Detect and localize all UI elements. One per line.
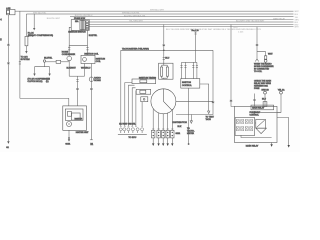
svg-text:CONDENSER: CONDENSER	[62, 54, 76, 56]
relay internal wire	[255, 122, 256, 124]
svg-text:IGNITION TIMING: IGNITION TIMING	[139, 78, 156, 80]
connector on ignition feed	[19, 62, 21, 64]
bus mid labels	[33, 10, 286, 34]
svg-text:IGNITION: IGNITION	[182, 82, 191, 84]
svg-text:FUSE: FUSE	[254, 88, 260, 90]
sensor box T inner	[140, 80, 147, 83]
relay horizontal with diamond	[255, 111, 281, 113]
branch feed wire to condenser node	[46, 61, 56, 63]
fuse box cluster outer	[71, 20, 89, 31]
wire bus drop x=257	[256, 27, 258, 59]
svg-text:C 423: C 423	[238, 32, 244, 34]
wire cluster left to condenser node	[69, 27, 71, 45]
wire coil drop	[87, 45, 89, 55]
stub wire x=34.2	[33, 14, 35, 28]
wire U right arm to coil	[84, 64, 86, 77]
wire bus line 5	[90, 21, 294, 23]
connector tick coil secondary	[90, 88, 92, 89]
connector tick stem	[76, 88, 78, 89]
branch feed wire right	[61, 61, 69, 63]
bus right end labels	[295, 11, 300, 28]
ground arrows distributor	[152, 143, 174, 146]
wire ignition feed vertical x=19.9	[19, 11, 21, 98]
igniter text box	[181, 79, 200, 89]
igniter inner element 1	[68, 111, 72, 116]
radio noise condenser circle	[89, 77, 93, 81]
ground wires below connector row	[153, 138, 172, 144]
svg-text:BLK/YEL WHT/BLK YEL: BLK/YEL WHT/BLK YEL	[124, 16, 147, 18]
ignition coil box	[81, 55, 95, 63]
wire bus drop to main relay	[231, 25, 235, 107]
relay pin grid box	[235, 118, 255, 136]
igniter inner element 2	[71, 113, 80, 120]
ecu connector circles	[119, 128, 143, 131]
connector tick on relay drop	[230, 100, 232, 102]
relay ground arrow	[270, 144, 272, 147]
svg-text:MAIN RELAY: MAIN RELAY	[273, 17, 286, 20]
wire long vertical right of circle	[176, 50, 213, 114]
svg-text:G101: G101	[176, 133, 181, 135]
wire tee condenser-coil	[69, 44, 87, 46]
wire ecu L3	[129, 85, 135, 126]
relay pins row2	[236, 127, 253, 131]
svg-text:MAIN RELAY: MAIN RELAY	[252, 107, 265, 110]
component on BRN wire	[263, 102, 267, 107]
wire to tach arrow stub	[190, 115, 192, 121]
wire ecu drop 1	[120, 50, 122, 126]
svg-text:TO COIL: TO COIL	[254, 71, 263, 73]
svg-text:COIL: COIL	[96, 61, 102, 63]
circle connector BRN	[264, 91, 267, 94]
hollow arrow end	[208, 111, 210, 114]
wire bus line 1 (WHT)	[15, 10, 294, 12]
svg-text:YEL/GRN WHT: YEL/GRN WHT	[129, 21, 144, 23]
relay title box	[251, 105, 274, 110]
svg-text:BLK/YEL WHT: BLK/YEL WHT	[47, 18, 61, 20]
svg-text:WHT: WHT	[268, 53, 273, 55]
wire U bottom	[69, 75, 84, 77]
wire main vertical to noise suppressor x=163.8	[163, 25, 165, 64]
relay switch element	[256, 119, 266, 128]
main relay outer box	[235, 106, 278, 142]
ground dot IG	[188, 143, 190, 145]
stub into relay with tick	[253, 94, 255, 107]
wire from IG box right corner	[200, 84, 209, 111]
wire No.1 IG drop	[195, 34, 197, 62]
sensor box S dot	[143, 98, 145, 100]
arrow to compressor	[33, 74, 35, 77]
svg-text:BLU: BLU	[295, 14, 299, 16]
wire ecu L2	[125, 83, 132, 127]
cluster pin squares	[86, 21, 89, 30]
wire bus line 6	[90, 24, 294, 26]
suppressor element 1	[161, 67, 163, 76]
relay switch diagonal	[257, 120, 265, 127]
svg-text:CONTROL: CONTROL	[250, 115, 259, 117]
wire IG box bottom ground	[188, 88, 190, 143]
svg-text:IGNITION SWITCH: IGNITION SWITCH	[68, 31, 86, 33]
relay ground wire	[271, 143, 273, 145]
sensor box B inner	[140, 90, 146, 93]
wire igniter feed stem	[77, 76, 79, 106]
svg-text:BLK: BLK	[178, 126, 182, 128]
branch to fuse	[257, 52, 266, 56]
junction tick battery wire	[7, 44, 9, 46]
wire cluster bottom to coil	[87, 30, 89, 45]
svg-text:BLU YEL/GRN GRN/ORN WHT/BLU: BLU YEL/GRN GRN/ORN WHT/BLU BLK/YEL WHT …	[166, 29, 262, 31]
wire tachometer branch corner	[121, 49, 213, 51]
connector No.1 IG	[194, 32, 196, 34]
svg-text:METER: METER	[187, 133, 195, 135]
svg-text:15A: 15A	[75, 20, 79, 23]
svg-text:TACH: TACH	[206, 118, 212, 121]
distributor bottom wire 4	[167, 113, 169, 131]
connector on 257 wire	[256, 44, 258, 45]
svg-text:WHT/BLU BLK/YEL: WHT/BLU BLK/YEL	[122, 13, 141, 15]
hollow arrow tach	[190, 121, 192, 124]
relay pins row2 x marks	[236, 127, 253, 131]
fuse drop wire x=26.4	[25, 14, 27, 36]
svg-text:WHT/BLU: WHT/BLU	[81, 67, 91, 69]
coil feed split bus	[182, 61, 197, 63]
fork connector end of 257	[255, 59, 258, 62]
connector pair right	[86, 48, 88, 50]
arrow to A/C	[25, 51, 27, 54]
noise condenser circle	[67, 56, 72, 61]
igniter circle component	[67, 122, 72, 127]
igniter ground arrow	[68, 139, 70, 141]
connector C501 top-left box	[7, 10, 16, 15]
svg-text:CLUTCH HOLD): CLUTCH HOLD)	[28, 81, 43, 83]
wire igniter ground	[68, 130, 70, 137]
relay pins row1	[236, 120, 253, 124]
connector circle on branch feed	[43, 60, 45, 62]
svg-text:BLU: BLU	[262, 99, 266, 101]
svg-text:IGNITION COIL: IGNITION COIL	[84, 54, 99, 56]
terminal bar B1	[90, 139, 93, 141]
connector ticks on drop wires	[180, 66, 198, 68]
svg-text:4: 4	[0, 18, 2, 21]
wire ecu L5	[135, 91, 137, 127]
wire ecu L4	[132, 88, 135, 127]
relay output wire right	[277, 118, 289, 145]
svg-text:WHT: WHT	[295, 11, 300, 13]
fuse No.24 body	[25, 36, 28, 45]
wire circle right output	[176, 100, 213, 102]
connector tick on 163.8 wire	[163, 45, 165, 46]
suppressor internal wires	[162, 63, 168, 79]
diamond arrow	[254, 111, 257, 114]
wire BRN to relay	[264, 94, 266, 106]
distributor bottom wire 5	[171, 109, 173, 130]
distributor bottom wire 1	[152, 109, 154, 130]
svg-text:5: 5	[0, 39, 2, 42]
svg-text:BLK/YEL WHT/BLU: BLK/YEL WHT/BLU	[75, 15, 93, 17]
svg-text:CONTROL: CONTROL	[182, 85, 193, 87]
wire ecu L6	[141, 102, 143, 127]
svg-text:YEL 2A: YEL 2A	[278, 88, 285, 91]
svg-text:IGNITER UNIT: IGNITER UNIT	[76, 132, 89, 134]
small fuse symbol	[264, 56, 266, 59]
svg-text:WHT BLK/YEL: WHT BLK/YEL	[33, 13, 47, 15]
distributor bottom wire 2	[158, 113, 160, 131]
distributor connector pins	[153, 132, 174, 137]
sensor box T	[132, 79, 156, 84]
svg-text:(TO A/C COMPRESSOR): (TO A/C COMPRESSOR)	[28, 34, 53, 37]
relay output ground arrow	[288, 145, 290, 148]
wire battery feed left vertical	[7, 15, 9, 142]
svg-text:TACHOMETER (YEL/GRN): TACHOMETER (YEL/GRN)	[122, 47, 149, 50]
distributor circle	[151, 89, 176, 114]
svg-text:(V): (V)	[46, 81, 49, 83]
in-line connector rect	[56, 60, 61, 63]
wire condenser drop	[68, 45, 70, 56]
wire bus line 7	[90, 26, 294, 28]
ecu bracket line	[118, 133, 147, 135]
distributor bottom wire 3	[162, 114, 164, 131]
branch drop wire	[35, 62, 50, 73]
sensor box S	[141, 97, 148, 102]
igniter ground dot	[68, 137, 70, 139]
svg-text:BLU WHT GRN YEL: BLU WHT GRN YEL	[119, 123, 135, 125]
dashed drop wires to igniter text box	[182, 62, 197, 78]
svg-text:TO ECU: TO ECU	[128, 137, 136, 139]
svg-text:MAIN RELAY: MAIN RELAY	[246, 144, 259, 147]
ignition coil inner circle	[83, 58, 87, 62]
distributor rotor lines	[163, 89, 172, 110]
svg-text:B1: B1	[90, 144, 94, 146]
wire bus line 4	[90, 19, 294, 21]
connector ticks distributor wires	[152, 128, 173, 130]
connector tick on 212.7	[212, 102, 214, 103]
svg-text:BLU: BLU	[165, 58, 170, 60]
svg-text:NOISE: NOISE	[94, 80, 101, 82]
relay inner bottom wire	[241, 135, 272, 137]
wire horizontal to igniter	[20, 98, 69, 106]
svg-text:BLK/YEL: BLK/YEL	[89, 35, 98, 37]
connector bars on stem	[76, 80, 78, 82]
ecu stubs below circles	[121, 131, 142, 133]
wire bus line 3 (BLK/YEL)	[70, 16, 294, 18]
connector pair left	[68, 45, 70, 51]
junction tick battery wire 2	[7, 63, 9, 65]
suppressor element 2	[166, 67, 168, 76]
terminal arrow battery wire bottom	[7, 141, 9, 144]
relay pins row1 x marks	[236, 120, 253, 124]
noise suppressor box	[159, 63, 173, 79]
svg-text:BLU: BLU	[234, 27, 238, 29]
ecu connector ticks	[120, 125, 143, 127]
svg-text:IGNITER: IGNITER	[75, 119, 83, 121]
arrow stub	[33, 28, 35, 30]
svg-text:DISTRIBUTOR: DISTRIBUTOR	[173, 122, 188, 124]
relay coil triangle	[256, 128, 267, 133]
junction dot tach	[163, 50, 165, 52]
igniter unit outer box	[63, 106, 87, 130]
svg-text:BLU/WHT GRN YEL/GRN WHT: BLU/WHT GRN YEL/GRN WHT	[236, 21, 265, 23]
wire YEL to relay	[277, 94, 281, 112]
igniter circle dot	[68, 123, 69, 124]
svg-text:BLK/WHT: BLK/WHT	[67, 67, 77, 69]
igniter inner box	[65, 109, 83, 120]
arrow to clutch	[48, 74, 50, 77]
svg-text:SYSTEM: SYSTEM	[21, 59, 30, 61]
svg-text:G401: G401	[65, 144, 71, 146]
svg-text:WHT: WHT	[295, 27, 300, 29]
svg-text:FUSE BOX: FUSE BOX	[74, 18, 86, 20]
wire condenser to U bottom	[68, 61, 70, 76]
wire coil secondary x=91.4	[90, 64, 92, 140]
wire below fuse	[25, 46, 27, 51]
svg-text:WHT/BLU WHT: WHT/BLU WHT	[150, 10, 165, 12]
distributor connector box 1	[152, 130, 175, 138]
connector symbol on 163.8 wire	[163, 58, 165, 60]
svg-text:G1: G1	[6, 147, 10, 149]
fuse end circle	[264, 60, 267, 63]
cluster inner dark block	[80, 20, 85, 30]
svg-text:BLK/YEL: BLK/YEL	[44, 58, 53, 60]
circle connector YEL	[280, 91, 283, 94]
sensor box B	[136, 89, 151, 94]
wire bus line 2 (WHT/BLU)	[26, 13, 293, 15]
